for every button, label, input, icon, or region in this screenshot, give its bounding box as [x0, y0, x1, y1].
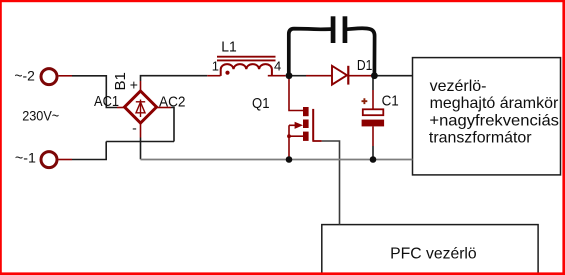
svg-text:+: + [130, 77, 138, 93]
svg-text:meghajtó áramkör: meghajtó áramkör [430, 95, 559, 112]
svg-text:~-1: ~-1 [15, 149, 36, 165]
svg-text:AC2: AC2 [159, 93, 186, 110]
svg-text:L1: L1 [221, 38, 237, 55]
svg-text:AC1: AC1 [94, 93, 119, 110]
svg-text:B1: B1 [112, 72, 129, 90]
svg-text:C1: C1 [382, 92, 399, 109]
svg-text:Q1: Q1 [252, 95, 270, 112]
svg-text:transzformátor: transzformátor [429, 130, 532, 147]
svg-text:+nagyfrekvenciás: +nagyfrekvenciás [429, 113, 559, 130]
svg-text:230V~: 230V~ [22, 107, 59, 123]
svg-text:D1: D1 [357, 57, 373, 74]
svg-text:PFC vezérlö: PFC vezérlö [390, 245, 477, 262]
svg-text:4: 4 [274, 58, 281, 73]
svg-text:vezérlö-: vezérlö- [430, 78, 487, 95]
svg-text:~-2: ~-2 [14, 68, 35, 84]
svg-text:-: - [132, 119, 137, 135]
svg-text:1: 1 [212, 58, 219, 73]
